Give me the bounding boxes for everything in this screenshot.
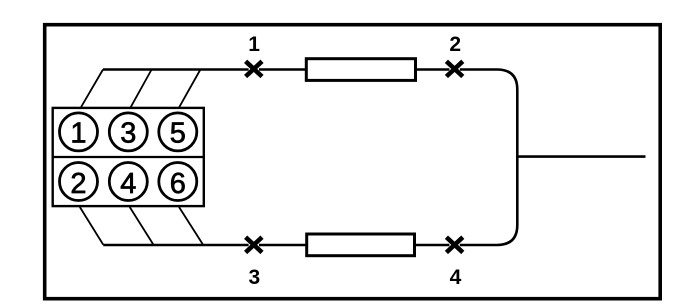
wire gap at sensor 1: [249, 66, 259, 71]
svg-text:6: 6: [170, 168, 186, 200]
wire gap at sensor 4: [449, 242, 459, 247]
cylinder 1: [60, 113, 98, 151]
cylinder 6: [159, 163, 197, 201]
wire diagonal cylinder 1 to top pipe: [81, 70, 103, 108]
cylinder 5: [159, 113, 197, 151]
catalytic converter bottom: [307, 234, 415, 256]
wire diagonal cylinder 4 to bottom pipe: [130, 207, 154, 245]
wire exhaust pipe loop (top pipe, downpipe, bottom pipe): [103, 70, 517, 246]
svg-text:4: 4: [450, 266, 462, 289]
svg-text:4: 4: [120, 168, 136, 200]
wire gap at sensor 2: [449, 66, 459, 71]
engine block divider: [52, 156, 206, 158]
sensor X mark 4: [446, 237, 462, 252]
sensor X mark 1: [246, 61, 262, 76]
wire gap at sensor 3: [249, 242, 259, 247]
svg-text:3: 3: [249, 266, 261, 289]
cylinder 4: [109, 163, 147, 201]
wire tailpipe: [517, 155, 646, 158]
wire diagonal cylinder 6 to bottom pipe: [179, 207, 203, 245]
svg-text:1: 1: [70, 118, 86, 150]
svg-text:5: 5: [170, 118, 186, 150]
wire diagonal cylinder 2 to bottom pipe: [80, 207, 103, 245]
cylinder 2: [60, 163, 98, 201]
cylinder 3: [109, 113, 147, 151]
svg-text:2: 2: [449, 33, 461, 56]
wire diagonal cylinder 3 to top pipe: [131, 70, 152, 108]
catalytic converter top: [306, 59, 415, 81]
engine block: [53, 108, 204, 206]
svg-text:2: 2: [70, 168, 86, 200]
svg-text:1: 1: [248, 33, 260, 56]
svg-text:3: 3: [120, 118, 136, 150]
sensor X mark 2: [446, 61, 462, 76]
outer frame: [45, 25, 661, 299]
sensor X mark 3: [246, 237, 262, 252]
wire diagonal cylinder 5 to top pipe: [179, 70, 200, 108]
